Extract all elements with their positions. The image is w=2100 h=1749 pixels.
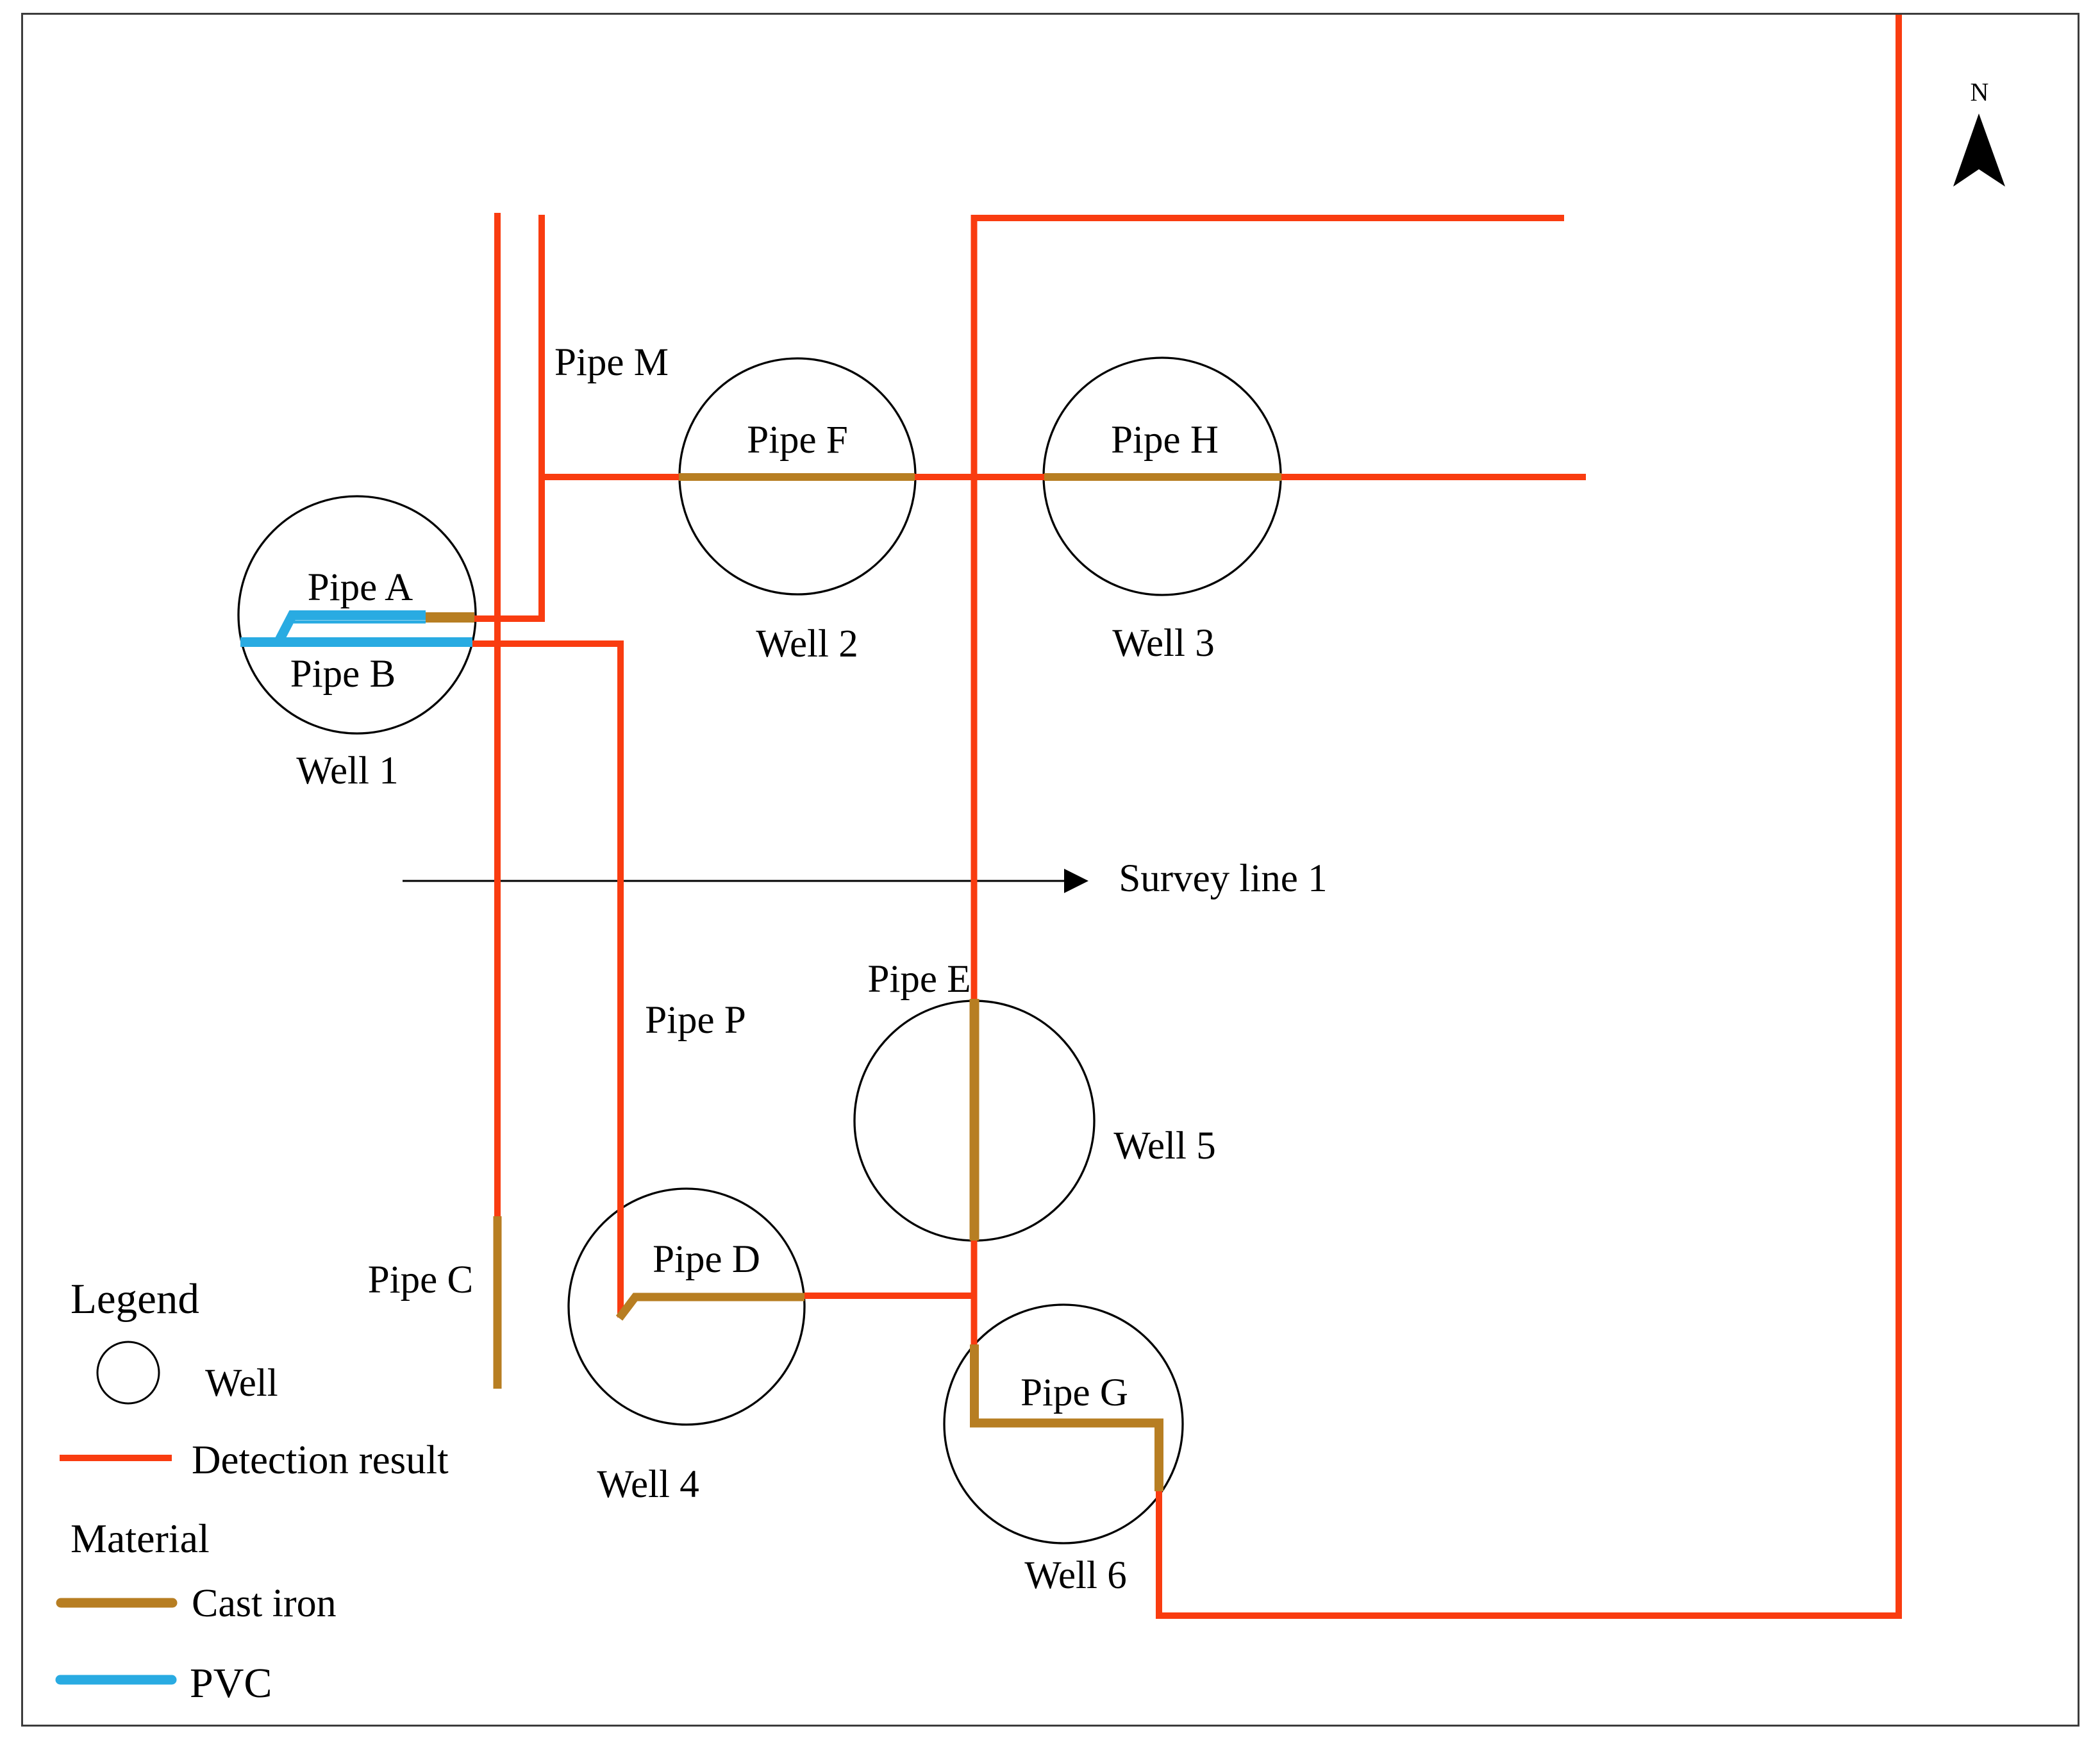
pipe G (cast iron Z shape) [974, 1344, 1159, 1491]
svg-text:Pipe G: Pipe G [1021, 1371, 1128, 1414]
survey line 1 arrow [403, 869, 1088, 893]
svg-text:PVC: PVC [190, 1660, 272, 1707]
svg-text:Pipe A: Pipe A [308, 566, 413, 609]
wire: pipe M vertical + elbow to pipe A [474, 215, 542, 619]
pipe F (cast iron) [679, 473, 915, 481]
pipe C (cast iron) [494, 1216, 502, 1389]
well 2 circle [679, 358, 915, 594]
svg-text:Pipe B: Pipe B [290, 653, 396, 696]
pipe A cast iron segment [426, 612, 474, 623]
svg-text:Pipe H: Pipe H [1111, 419, 1219, 462]
wire: main long vertical + top horizontal [974, 218, 1565, 1346]
svg-text:Well 5: Well 5 [1113, 1125, 1215, 1167]
well 5 circle [854, 1001, 1094, 1241]
legend PVC line [60, 1675, 172, 1685]
svg-text:Pipe D: Pipe D [653, 1238, 760, 1281]
svg-text:Well 6: Well 6 [1024, 1554, 1126, 1597]
svg-text:N: N [1971, 78, 1989, 106]
pipe A thin under-line [294, 621, 426, 624]
wire: right tall vertical + bottom horizontal + well 6 link [1159, 15, 1899, 1616]
pipe H (cast iron) [1044, 473, 1281, 481]
svg-text:Well 2: Well 2 [756, 623, 858, 665]
pipe A (PVC blue, with slanted end) [279, 615, 426, 640]
svg-text:Cast iron: Cast iron [192, 1582, 337, 1625]
svg-text:Detection result: Detection result [192, 1437, 449, 1482]
wire: detection left vertical (to pipe C) [494, 213, 501, 1216]
well 6 circle [944, 1305, 1183, 1543]
pipe E (cast iron) [970, 999, 979, 1241]
svg-text:Legend: Legend [71, 1275, 199, 1323]
wire: horizontal through wells 2 and 3 (pipes F,H) [542, 474, 1586, 480]
legend detection line [60, 1455, 172, 1461]
svg-text:Survey line 1: Survey line 1 [1119, 857, 1327, 900]
wire: pipe B continuation + pipe P vertical [470, 644, 621, 1318]
legend cast iron line [61, 1598, 172, 1608]
svg-text:Well 4: Well 4 [597, 1463, 699, 1506]
svg-text:Pipe C: Pipe C [368, 1259, 473, 1301]
svg-text:Pipe P: Pipe P [645, 999, 746, 1042]
well 1 circle [238, 496, 476, 733]
svg-text:Well 1: Well 1 [296, 749, 398, 792]
well 3 circle [1044, 358, 1281, 595]
legend well symbol [97, 1342, 159, 1403]
pipe B (PVC blue) [240, 637, 472, 647]
svg-text:Pipe E: Pipe E [868, 958, 971, 1001]
svg-text:Well: Well [205, 1362, 278, 1405]
svg-text:Pipe F: Pipe F [747, 419, 848, 462]
svg-text:Material: Material [71, 1516, 210, 1561]
north arrow [1953, 78, 2005, 187]
svg-text:Pipe M: Pipe M [554, 341, 669, 384]
svg-text:Well 3: Well 3 [1112, 622, 1214, 665]
well 4 circle [569, 1189, 804, 1425]
pipe D (cast iron with slanted end) [619, 1297, 804, 1318]
wire: pipe D red part [804, 1293, 974, 1299]
